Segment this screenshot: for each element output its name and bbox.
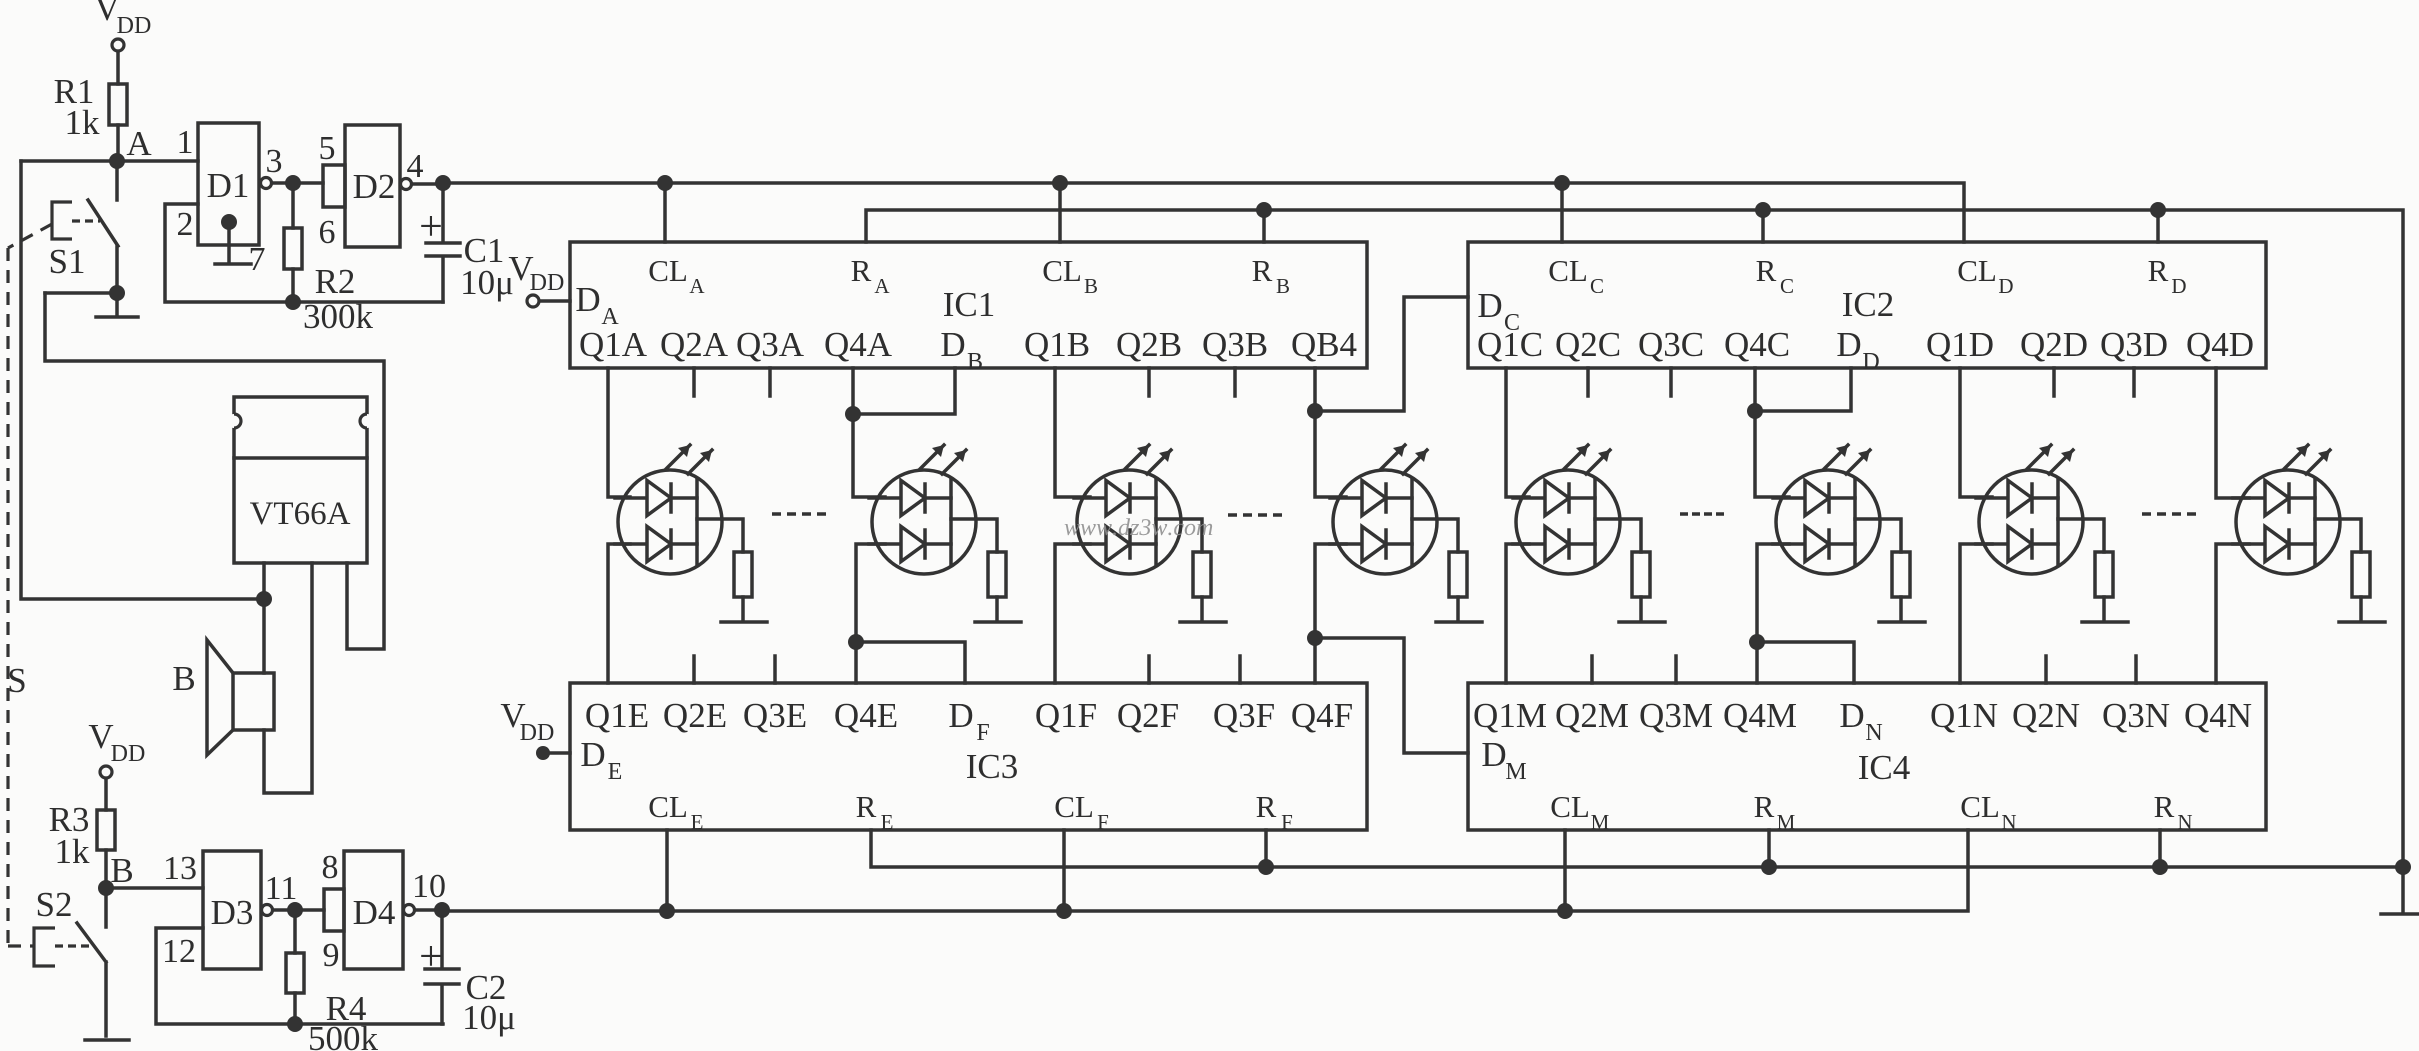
svg-text:6: 6 [319,214,336,251]
svg-text:1k: 1k [65,103,101,142]
svg-text:N: N [1865,720,1882,746]
svg-text:E: E [691,810,704,834]
svg-text:4: 4 [407,148,424,185]
svg-text:R: R [856,789,877,824]
svg-text:9: 9 [323,937,340,974]
svg-text:Q2C: Q2C [1555,325,1621,364]
svg-text:Q2D: Q2D [2020,325,2088,364]
svg-text:CL: CL [648,253,688,288]
svg-text:13: 13 [163,850,197,887]
svg-text:M: M [1591,810,1610,834]
svg-text:A: A [126,124,152,163]
svg-text:Q2B: Q2B [1116,325,1182,364]
svg-text:B: B [172,659,195,698]
svg-text:Q4C: Q4C [1724,325,1790,364]
svg-text:CL: CL [1550,789,1590,824]
svg-text:Q4F: Q4F [1291,696,1353,735]
svg-text:Q1E: Q1E [585,696,649,735]
svg-text:D1: D1 [207,166,250,205]
svg-text:B: B [967,349,983,375]
svg-text:Q1F: Q1F [1035,696,1097,735]
svg-text:Q4A: Q4A [824,325,893,364]
svg-text:R: R [2148,253,2169,288]
svg-text:M: M [1505,759,1526,785]
svg-text:Q2A: Q2A [660,325,729,364]
svg-text:8: 8 [322,849,339,886]
svg-text:F: F [976,720,989,746]
svg-text:R2: R2 [315,262,356,301]
svg-text:D3: D3 [211,893,254,932]
svg-text:D: D [948,696,973,735]
svg-text:Q1C: Q1C [1477,325,1543,364]
svg-text:D: D [1481,735,1506,774]
svg-text:2: 2 [177,206,194,243]
svg-text:F: F [1281,810,1293,834]
svg-text:500k: 500k [308,1019,379,1051]
svg-text:Q3D: Q3D [2100,325,2168,364]
svg-text:R: R [1256,789,1277,824]
svg-text:B: B [1276,274,1290,298]
svg-text:Q3F: Q3F [1213,696,1275,735]
svg-text:E: E [608,759,623,785]
svg-text:R: R [1754,789,1775,824]
svg-text:Q2E: Q2E [663,696,727,735]
svg-text:M: M [1777,810,1796,834]
svg-text:R: R [1252,253,1273,288]
svg-text:F: F [1097,810,1109,834]
svg-text:D: D [1998,274,2013,298]
svg-text:CL: CL [1957,253,1997,288]
svg-text:B: B [110,851,133,890]
svg-text:N: N [2001,810,2016,834]
svg-text:1: 1 [177,124,194,161]
svg-text:D: D [2171,274,2186,298]
svg-text:Q3A: Q3A [736,325,805,364]
svg-text:A: A [689,274,705,298]
svg-text:IC2: IC2 [1842,285,1895,324]
svg-text:Q1A: Q1A [579,325,648,364]
svg-text:Q2M: Q2M [1555,696,1629,735]
svg-text:1k: 1k [55,832,91,871]
svg-text:D: D [1839,696,1864,735]
svg-text:3: 3 [266,143,283,180]
svg-text:R: R [851,253,872,288]
svg-text:DD: DD [117,13,152,39]
svg-text:D2: D2 [353,167,396,206]
svg-text:Q4E: Q4E [834,696,898,735]
svg-text:CL: CL [648,789,688,824]
svg-text:CL: CL [1042,253,1082,288]
svg-text:+: + [419,934,443,980]
svg-text:Q1M: Q1M [1473,696,1547,735]
svg-text:DD: DD [530,270,565,296]
svg-text:VT66A: VT66A [250,496,351,532]
svg-text:Q4D: Q4D [2186,325,2254,364]
svg-text:IC1: IC1 [943,285,996,324]
svg-text:C: C [1780,274,1794,298]
svg-text:CL: CL [1960,789,2000,824]
svg-text:D: D [1862,349,1879,375]
svg-text:Q1B: Q1B [1024,325,1090,364]
svg-text:QB4: QB4 [1291,325,1357,364]
svg-text:5: 5 [319,130,336,167]
svg-text:C: C [1590,274,1604,298]
svg-text:A: A [874,274,890,298]
svg-text:R: R [1756,253,1777,288]
svg-text:+: + [419,204,443,250]
svg-text:IC4: IC4 [1858,748,1911,787]
svg-text:Q3C: Q3C [1638,325,1704,364]
svg-text:IC3: IC3 [966,747,1019,786]
svg-text:D: D [575,280,600,319]
svg-text:CL: CL [1548,253,1588,288]
svg-text:10μ: 10μ [460,263,514,302]
svg-text:Q3N: Q3N [2102,696,2170,735]
svg-text:Q3M: Q3M [1639,696,1713,735]
svg-text:10μ: 10μ [462,998,516,1037]
svg-text:B: B [1084,274,1098,298]
svg-text:7: 7 [249,241,266,278]
svg-text:Q2N: Q2N [2012,696,2080,735]
svg-text:E: E [881,810,894,834]
svg-text:11: 11 [265,870,298,907]
svg-text:D4: D4 [353,893,396,932]
svg-text:S: S [7,661,26,700]
svg-text:Q4M: Q4M [1723,696,1797,735]
svg-text:10: 10 [412,868,446,905]
svg-text:S1: S1 [49,242,86,281]
svg-text:Q4N: Q4N [2184,696,2252,735]
svg-text:Q3B: Q3B [1202,325,1268,364]
svg-text:12: 12 [162,933,196,970]
svg-text:CL: CL [1054,789,1094,824]
svg-text:DD: DD [520,720,555,746]
svg-text:D: D [580,735,605,774]
svg-text:N: N [2177,810,2192,834]
svg-text:Q3E: Q3E [743,696,807,735]
svg-text:S2: S2 [36,885,73,924]
svg-text:D: D [1836,325,1861,364]
svg-text:R: R [2154,789,2175,824]
svg-text:Q1N: Q1N [1930,696,1998,735]
svg-text:Q1D: Q1D [1926,325,1994,364]
svg-text:DD: DD [111,741,146,767]
svg-text:300k: 300k [303,297,374,336]
svg-text:D: D [940,325,965,364]
svg-text:Q2F: Q2F [1117,696,1179,735]
svg-text:D: D [1477,286,1502,325]
